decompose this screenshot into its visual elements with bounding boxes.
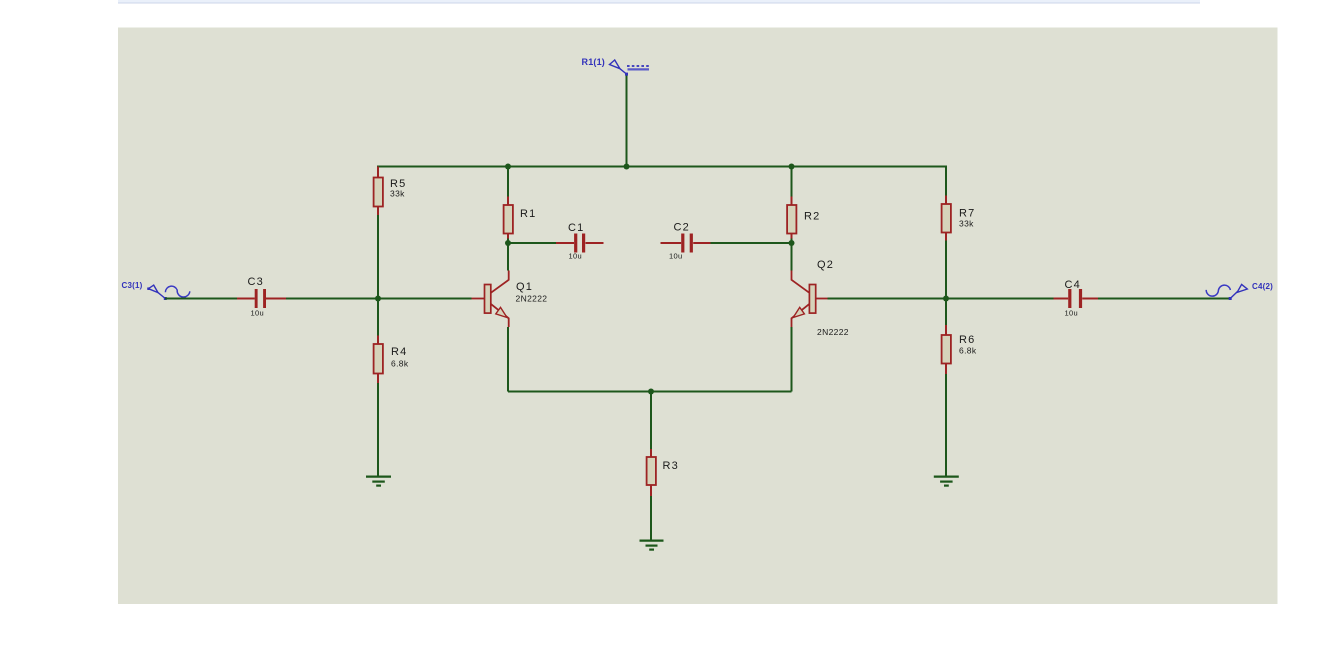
wire R2 top bbox=[791, 167, 793, 197]
resistor R6 bbox=[942, 325, 951, 374]
svg-text:Q1: Q1 bbox=[516, 281, 533, 293]
wire emitter rail bbox=[508, 391, 792, 393]
svg-text:R1: R1 bbox=[520, 208, 536, 220]
svg-text:R4: R4 bbox=[391, 346, 407, 358]
svg-text:C4: C4 bbox=[1065, 279, 1081, 291]
svg-text:C2: C2 bbox=[674, 222, 690, 234]
transistor Q2 bbox=[791, 271, 828, 328]
svg-text:10u: 10u bbox=[569, 252, 582, 261]
wire output B bbox=[1098, 298, 1230, 300]
svg-text:C3(1): C3(1) bbox=[122, 281, 143, 290]
wire Q2 collector bbox=[791, 243, 793, 271]
svg-text:C4(2): C4(2) bbox=[1252, 282, 1273, 291]
wire R3 bottom bbox=[650, 496, 652, 540]
svg-text:R6: R6 bbox=[959, 334, 975, 346]
sine marker output bbox=[1206, 285, 1230, 296]
junction VCC/R1 bbox=[505, 164, 511, 170]
wire Q1 collector bbox=[507, 243, 509, 271]
resistor R4 bbox=[374, 336, 383, 384]
output terminal C4(2) bbox=[1229, 284, 1248, 300]
svg-text:2N2222: 2N2222 bbox=[516, 294, 548, 304]
junction R1/C1/Q1 bbox=[505, 240, 511, 246]
svg-text:33k: 33k bbox=[390, 189, 405, 199]
resistor R3 bbox=[647, 449, 656, 496]
wire Q2 base bbox=[828, 298, 947, 300]
ground under R4 bbox=[366, 477, 391, 486]
svg-text:R1(1): R1(1) bbox=[582, 57, 606, 67]
svg-text:10u: 10u bbox=[251, 309, 264, 318]
wire Q2 emitter bbox=[791, 327, 793, 392]
svg-text:6.8k: 6.8k bbox=[959, 346, 977, 356]
wire R2 bottom bbox=[791, 239, 793, 244]
svg-text:C3: C3 bbox=[248, 276, 264, 288]
junction VCC/power bbox=[624, 164, 630, 170]
wire R1 top bbox=[507, 167, 509, 197]
svg-text:6.8k: 6.8k bbox=[391, 359, 409, 369]
wire C2 branch bbox=[711, 242, 792, 244]
wire R3 top bbox=[650, 392, 652, 450]
svg-text:10u: 10u bbox=[1065, 309, 1078, 318]
wire R6 top bbox=[945, 299, 947, 326]
capacitor C2 bbox=[661, 234, 711, 253]
wire R7 top bbox=[945, 167, 947, 196]
wire VCC rail bbox=[377, 166, 947, 168]
wire R1 bottom bbox=[507, 239, 509, 244]
ground under R3 bbox=[640, 541, 664, 550]
junction R2/C2/Q2 bbox=[789, 240, 795, 246]
svg-text:R2: R2 bbox=[804, 211, 820, 223]
svg-text:10u: 10u bbox=[669, 252, 682, 261]
svg-text:C1: C1 bbox=[568, 222, 584, 234]
power terminal R1(1) bbox=[610, 60, 650, 76]
wire power feed bbox=[626, 74, 628, 167]
capacitor C4 bbox=[1054, 289, 1099, 308]
wire R4 lower bbox=[377, 383, 379, 476]
transistor Q1 bbox=[472, 271, 509, 328]
resistor R2 bbox=[787, 197, 796, 239]
wire R5 mid bbox=[377, 215, 379, 299]
wire R7 bottom bbox=[945, 241, 947, 299]
sine marker input bbox=[165, 286, 189, 297]
capacitor C1 bbox=[556, 234, 604, 253]
wire Q1 emitter bbox=[507, 327, 509, 392]
capacitor C3 bbox=[237, 289, 286, 308]
svg-text:R3: R3 bbox=[663, 460, 679, 472]
wire input B bbox=[286, 298, 378, 300]
junction VCC/R2 bbox=[789, 164, 795, 170]
junction rail/R3 bbox=[648, 389, 654, 395]
wire Q1 base bbox=[378, 298, 472, 300]
wire R6 lower bbox=[945, 374, 947, 476]
svg-text:Q2: Q2 bbox=[817, 259, 834, 271]
wire input A bbox=[165, 298, 237, 300]
input terminal C3(1) bbox=[147, 285, 167, 300]
svg-text:2N2222: 2N2222 bbox=[817, 327, 849, 337]
junction input/R5/R4 bbox=[375, 296, 381, 302]
junction R7/R6/output bbox=[943, 296, 949, 302]
svg-text:33k: 33k bbox=[959, 219, 974, 229]
wire C1 branch bbox=[508, 242, 556, 244]
resistor R7 bbox=[942, 196, 951, 241]
ground under R6 bbox=[934, 477, 959, 486]
resistor R1 bbox=[504, 197, 513, 239]
wire output A bbox=[946, 298, 1054, 300]
wire R4 upper bbox=[377, 299, 379, 336]
resistor R5 bbox=[374, 167, 383, 216]
